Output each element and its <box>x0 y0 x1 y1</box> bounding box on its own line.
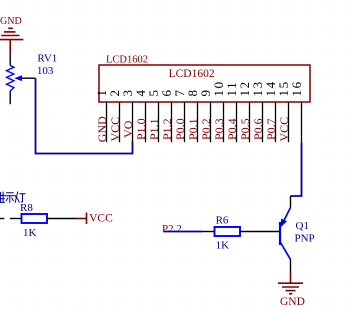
svg-text:16: 16 <box>289 80 304 96</box>
resistor R6 1K <box>215 227 241 236</box>
LCD1602 pin 12 P0.5 <box>237 80 252 142</box>
LCD1602 pin 16 <box>289 80 304 142</box>
svg-text:VO: VO <box>121 120 135 138</box>
LCD1602 pin 15 VCC <box>276 80 291 142</box>
svg-text:P0.5: P0.5 <box>238 118 252 140</box>
LCD1602 pin 10 P0.3 <box>211 80 226 142</box>
wire <box>9 54 11 66</box>
svg-text:RV1: RV1 <box>37 53 57 65</box>
svg-text:LCD1602: LCD1602 <box>106 54 148 65</box>
annotation text 指示灯 (indicator lamp), drawn as strokes <box>0 192 25 203</box>
svg-text:P0.0: P0.0 <box>173 118 187 140</box>
LCD1602 pin 14 P0.7 <box>263 80 278 142</box>
wire (LCD pin16 to Q1 emitter) <box>291 142 302 196</box>
svg-text:P0.1: P0.1 <box>186 118 200 140</box>
svg-text:P1.1: P1.1 <box>147 118 161 140</box>
LCD1602 pin 1 GND <box>94 88 109 142</box>
LCD1602 pin 5 P1.1 <box>146 88 161 142</box>
wire (R6 to Q1 base) <box>240 231 279 233</box>
potentiometer RV1 103 <box>7 66 14 92</box>
svg-text:GND: GND <box>280 296 305 308</box>
wire (RV1 wiper to LCD pin 3 VO) <box>36 78 133 153</box>
svg-text:P0.4: P0.4 <box>225 118 239 140</box>
LCD1602 pin 3 VO <box>120 88 135 142</box>
LCD1602 pin 4 P1.0 <box>133 88 148 142</box>
power port VCC <box>76 213 87 225</box>
svg-text:PNP: PNP <box>295 233 315 245</box>
svg-text:R6: R6 <box>216 215 229 227</box>
wire <box>0 218 4 220</box>
svg-text:P1.0: P1.0 <box>134 118 148 140</box>
transistor Q1 PNP <box>280 196 315 271</box>
svg-text:P0.3: P0.3 <box>212 118 226 140</box>
svg-text:P0.6: P0.6 <box>251 118 265 140</box>
wire <box>47 218 76 220</box>
svg-text:1K: 1K <box>216 240 230 252</box>
svg-text:103: 103 <box>37 65 54 77</box>
svg-text:VCC: VCC <box>89 213 113 225</box>
LCD1602 pin 11 P0.4 <box>224 81 239 142</box>
svg-text:P0.2: P0.2 <box>199 118 213 140</box>
LCD1602 pin 2 VCC <box>107 88 122 142</box>
ground GND (top-left power port) <box>0 28 23 54</box>
LCD1602 pin 6 P1.2 <box>159 88 174 142</box>
svg-text:Q1: Q1 <box>296 220 309 232</box>
svg-text:GND: GND <box>0 16 22 27</box>
wire <box>203 231 215 233</box>
LCD1602 pin 13 P0.6 <box>250 80 265 142</box>
LCD1602 pin 7 P0.0 <box>172 88 187 142</box>
svg-text:VCC: VCC <box>277 117 291 142</box>
wire <box>10 218 22 220</box>
LCD1602 component body <box>99 65 310 102</box>
svg-text:1K: 1K <box>23 227 37 239</box>
svg-text:GND: GND <box>95 116 109 142</box>
svg-text:P2.2: P2.2 <box>162 223 182 235</box>
LCD1602 pin 9 P0.2 <box>198 88 213 142</box>
svg-text:P0.7: P0.7 <box>264 118 278 140</box>
ground GND (bottom power port) <box>278 271 303 294</box>
wire <box>164 231 203 233</box>
svg-text:R8: R8 <box>20 202 33 214</box>
svg-text:VCC: VCC <box>108 117 122 142</box>
LCD1602 pin 8 P0.1 <box>185 88 200 142</box>
resistor R8 1K <box>22 214 48 223</box>
svg-text:P1.2: P1.2 <box>160 118 174 140</box>
svg-text:LCD1602: LCD1602 <box>169 68 215 80</box>
